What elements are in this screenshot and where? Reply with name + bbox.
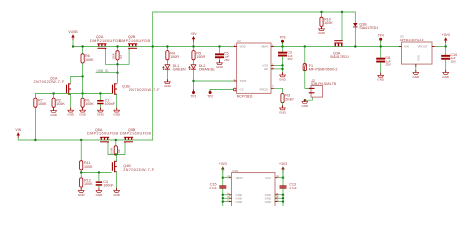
junction R8 top — [115, 139, 117, 141]
wire R8 column — [115, 140, 117, 155]
wire USB GND stub left 3 — [223, 201, 232, 203]
svg-text:+3V3: +3V3 — [279, 162, 287, 166]
wire C10 stub top — [445, 47, 447, 55]
svg-text:GND: GND — [113, 193, 121, 197]
ground under C1 — [97, 108, 105, 117]
svg-text:VDD: VDD — [240, 45, 246, 49]
wire TP3 stub — [282, 42, 284, 46]
junction Q5 gates node — [115, 153, 117, 155]
resistor R12 — [80, 178, 83, 187]
capacitor C4 — [96, 181, 102, 185]
wire VOUT — [432, 46, 446, 48]
svg-text:DMP2160UFDB: DMP2160UFDB — [87, 132, 118, 136]
transistor Q1B — [113, 83, 117, 95]
svg-text:25V: 25V — [451, 59, 456, 63]
wire R7 column — [34, 94, 36, 141]
junction R4 top — [116, 45, 118, 47]
svg-text:150R: 150R — [170, 55, 179, 59]
LED DL1 — [163, 65, 170, 70]
wire PROG — [271, 88, 283, 93]
svg-text:GND: GND — [78, 193, 86, 197]
svg-text:S2B-PH-SM4-TB: S2B-PH-SM4-TB — [311, 82, 337, 86]
wire USB GND stub right 1 — [275, 194, 283, 196]
svg-text:GND: GND — [164, 84, 172, 88]
wire R2 column — [53, 94, 55, 111]
junction gate row x82 — [81, 92, 83, 94]
junction VBAT pin — [222, 177, 224, 179]
svg-text:100K: 100K — [84, 182, 93, 186]
supply arrow VIN — [15, 128, 21, 140]
wire R11/R12 column — [80, 140, 82, 190]
wire Q4B drain — [116, 155, 118, 162]
junction R2 top — [52, 92, 54, 94]
junction R6 bottom node — [81, 75, 83, 77]
transistor Q3A — [334, 41, 342, 47]
svg-text:100K: 100K — [38, 102, 47, 106]
wire C3 bottom to GND — [282, 57, 284, 75]
wire C4 stub bottom — [98, 186, 100, 191]
junction USB GND left 2 — [222, 197, 224, 199]
resistor R6 — [81, 54, 84, 63]
junction R6 top — [81, 45, 83, 47]
junction Q3B rail — [354, 45, 356, 47]
svg-text:VBAT: VBAT — [261, 45, 269, 49]
ground under R10 — [318, 26, 326, 35]
junction Q3A gate top — [341, 11, 343, 13]
wire Q4B source — [116, 172, 118, 191]
diode Q3B (body) — [353, 23, 357, 27]
capacitor C13 — [280, 185, 287, 188]
svg-text:VIN: VIN — [404, 45, 409, 49]
op-amp U2 charger IC box — [237, 43, 271, 93]
svg-text:2K87: 2K87 — [285, 97, 294, 101]
svg-text:+3V3: +3V3 — [219, 162, 227, 166]
wire R6 column — [82, 47, 84, 94]
wire C3 stub top — [282, 47, 284, 52]
svg-text:100K: 100K — [84, 165, 93, 169]
svg-text:GND: GND — [50, 113, 58, 117]
capacitor C8 — [376, 58, 385, 63]
junction USB GND right 2 — [282, 197, 284, 199]
resistor R8 — [114, 146, 117, 155]
LED DL2 — [189, 65, 196, 70]
junction USB GND right 3 — [282, 200, 284, 202]
capacitor C5 — [215, 53, 224, 58]
svg-text:GND: GND — [113, 113, 121, 117]
wire R4a column — [166, 47, 168, 65]
connector USB box — [232, 173, 276, 209]
resistor R10 — [320, 17, 323, 26]
wire Q1A drain link — [71, 76, 83, 82]
junction C5 top — [218, 45, 220, 47]
junction EP — [281, 68, 283, 70]
ground under R2 — [50, 108, 58, 117]
svg-text:STAT: STAT — [240, 79, 247, 83]
pin bubble CS — [233, 88, 236, 91]
svg-text:100nF: 100nF — [105, 102, 116, 106]
wire USB GND stub left 1 — [223, 194, 232, 196]
ground under C8 — [377, 73, 385, 82]
svg-text:GND: GND — [416, 55, 420, 61]
svg-text:GND: GND — [412, 75, 420, 79]
svg-text:GND: GND — [442, 75, 450, 79]
ground under DL1 — [164, 79, 172, 88]
junction TP4 rail — [380, 45, 382, 47]
junction DL1 column — [166, 45, 168, 47]
wire Q5 gates — [108, 143, 125, 155]
svg-text:R4: R4 — [119, 55, 123, 59]
junction C1 top — [99, 92, 101, 94]
svg-text:DMP2160UFDB: DMP2160UFDB — [120, 132, 151, 136]
svg-text:TP1: TP1 — [190, 94, 196, 98]
svg-text:MCP73831: MCP73831 — [237, 94, 253, 98]
capacitor C1 — [97, 100, 103, 104]
wire top +5V feed — [153, 11, 356, 13]
wire Q3B anode — [354, 12, 356, 23]
svg-text:DMP2160UFDB: DMP2160UFDB — [119, 39, 150, 43]
resistor R11 — [80, 161, 83, 170]
svg-text:GND: GND — [265, 200, 271, 204]
svg-text:CS: CS — [240, 87, 244, 91]
ground under R1 — [79, 108, 87, 117]
wire C4 stub top — [98, 173, 100, 182]
resistor R1 — [81, 98, 84, 107]
svg-text:100K: 100K — [56, 102, 65, 106]
pin tips U3 — [399, 47, 435, 67]
wire R5 column — [193, 47, 195, 65]
svg-text:GND: GND — [67, 113, 75, 117]
ground under C5 — [216, 60, 224, 69]
resistor R4 — [116, 51, 119, 60]
svg-text:P$4: P$4 — [227, 176, 230, 178]
svg-text:+5V: +5V — [190, 32, 197, 36]
svg-text:VROUT: VROUT — [417, 45, 427, 49]
svg-text:ORANGE: ORANGE — [199, 68, 216, 72]
capacitor C10 — [441, 55, 450, 60]
junction USB GND left 3 — [222, 200, 224, 202]
junction USB_ID tap — [116, 72, 118, 74]
junction +3V3 node — [445, 45, 447, 47]
junction R11/R12 node — [80, 171, 82, 173]
supply arrow +3V3 right — [279, 162, 287, 178]
svg-text:GND: GND — [236, 200, 242, 204]
ground under R3 — [279, 105, 287, 114]
wire VUSB stub — [72, 40, 74, 46]
fuse F1 — [303, 64, 306, 71]
svg-text:SiA417EDJ: SiA417EDJ — [359, 26, 378, 30]
svg-text:PROG: PROG — [260, 87, 269, 91]
connector J2 — [309, 86, 323, 98]
svg-text:P$1: P$1 — [276, 176, 279, 178]
wire C5 stub bottom — [219, 58, 221, 63]
svg-text:VBAT: VBAT — [236, 176, 244, 180]
supply arrow +3V3 — [442, 33, 450, 47]
ground under C4 — [96, 188, 104, 197]
svg-text:SiA417EDJ: SiA417EDJ — [330, 55, 349, 59]
supply arrow +5V — [190, 32, 197, 47]
wire F1 to J2 pin 1 — [305, 71, 309, 89]
svg-text:5: 5 — [272, 86, 274, 88]
wire left +3V3 column — [222, 167, 224, 185]
svg-text:R8: R8 — [117, 149, 121, 153]
capacitor C15 — [219, 185, 226, 188]
pin VBAT red stub — [229, 177, 232, 179]
ground under Q4B — [113, 188, 121, 197]
pin number marks U2 — [234, 45, 274, 88]
wire VBAT pin stub — [223, 177, 229, 179]
wire C1 stub bottom — [99, 104, 101, 110]
supply arrow VUSB — [68, 30, 78, 41]
svg-text:U2: U2 — [237, 39, 241, 43]
svg-text:150R: 150R — [196, 55, 205, 59]
wire Q1A source — [70, 94, 72, 110]
junction C4 top — [98, 171, 100, 173]
test point TP4 — [378, 34, 384, 42]
wire left column to GND rows — [222, 189, 224, 206]
wire DL1 cathode — [166, 70, 168, 82]
svg-text:4.7uF: 4.7uF — [209, 186, 217, 190]
svg-text:GND: GND — [216, 65, 224, 69]
svg-text:GREEN: GREEN — [173, 68, 186, 72]
svg-text:VCC: VCC — [265, 176, 271, 180]
wire R1 column — [82, 94, 84, 111]
wire TP4 column — [380, 40, 382, 57]
svg-text:TP2: TP2 — [207, 94, 213, 98]
resistor R2 — [52, 98, 55, 107]
transistor Q1A — [67, 83, 71, 95]
transistor Q4B — [112, 161, 116, 172]
svg-text:GND: GND — [96, 193, 104, 197]
junction Q2 gates node — [116, 63, 118, 65]
wire Q1 gate row — [35, 93, 112, 95]
transistor Q2B — [128, 44, 137, 50]
wire R3 bottom — [282, 103, 284, 108]
wire vertical tie x152 — [152, 12, 154, 140]
wire VBAT rail — [271, 46, 402, 48]
junction VCC pin — [282, 177, 284, 179]
pin VCC red stub — [275, 177, 278, 179]
wire Q1B source — [116, 94, 118, 110]
regulator U3 box — [402, 42, 433, 64]
wire VIN rail — [18, 139, 153, 141]
svg-text:25V: 25V — [288, 57, 293, 61]
pin tips USB gnd rows — [229, 195, 278, 202]
svg-text:4.7uF: 4.7uF — [289, 186, 297, 190]
junction R11 top — [80, 139, 82, 141]
svg-text:USB_ID: USB_ID — [97, 69, 110, 73]
svg-text:GND: GND — [279, 77, 287, 81]
svg-text:2N7002DW-7-F: 2N7002DW-7-F — [34, 80, 65, 84]
svg-text:25V: 25V — [224, 58, 229, 62]
svg-text:100K: 100K — [85, 102, 94, 106]
svg-text:USB: USB — [232, 169, 238, 173]
junction USB GND left 1 — [222, 194, 224, 196]
ground under J2 — [301, 99, 309, 108]
svg-text:VUSB: VUSB — [68, 30, 78, 34]
svg-text:2N7002DW-7-F: 2N7002DW-7-F — [129, 88, 160, 92]
transistor Q2A — [97, 44, 106, 50]
capacitor C3 — [278, 52, 287, 57]
svg-text:DMP2160UFDB: DMP2160UFDB — [90, 39, 121, 43]
junction USB GND right 1 — [282, 194, 284, 196]
wire USB_ID — [96, 72, 118, 74]
ground under R12 — [78, 188, 86, 197]
pin tips U2 — [234, 47, 274, 89]
wire C1 stub top — [99, 94, 101, 101]
transistor Q5B — [124, 137, 133, 143]
wire USB GND stub right 3 — [275, 201, 283, 203]
junction +5V column — [192, 45, 194, 47]
wire +5V rail — [73, 46, 237, 48]
svg-text:GND: GND — [79, 113, 87, 117]
svg-text:GND: GND — [301, 104, 309, 108]
wire VCC pin stub — [275, 177, 283, 179]
svg-text:GND: GND — [279, 110, 287, 114]
junction R7 on VIN rail — [34, 139, 36, 141]
resistor R7 — [34, 98, 37, 107]
wire Q3A gate — [341, 12, 343, 40]
junction x152 rail — [152, 45, 154, 47]
wire R10 bottom — [321, 26, 323, 28]
wire EP pin — [271, 68, 283, 70]
junction VUSB-rail — [72, 45, 74, 47]
junction VSS — [281, 64, 283, 66]
ground under Q1A — [67, 108, 75, 117]
wire J2 pin 2 to GND — [305, 97, 313, 102]
resistor R5 — [192, 51, 195, 60]
wire Q2 gates — [105, 50, 129, 65]
resistor R4 (LED green) — [166, 51, 169, 60]
wire right +3V3 column — [282, 167, 284, 185]
wire C8 bottom — [380, 63, 382, 76]
junction VBAT column — [281, 45, 283, 47]
wire USB GND stub right 2 — [275, 197, 283, 199]
svg-text:EP: EP — [264, 67, 268, 71]
wire Q3B cathode — [354, 27, 356, 46]
wire Q4B gate row — [81, 172, 111, 174]
svg-text:2N7002DW-7-F: 2N7002DW-7-F — [123, 168, 154, 172]
wire C5 stub top — [219, 47, 221, 54]
svg-text:25V: 25V — [386, 63, 391, 67]
junction F1 top — [304, 45, 306, 47]
transistor Q5A — [100, 137, 109, 143]
wire to F1 — [304, 47, 306, 64]
wire right column to GND rows — [282, 189, 284, 206]
wire C10 bottom — [445, 60, 447, 73]
test point TP2 — [207, 90, 213, 99]
resistor R3 — [281, 94, 284, 103]
ground under Q1B — [113, 108, 121, 117]
svg-text:TP4: TP4 — [378, 34, 384, 38]
svg-text:GND: GND — [318, 31, 326, 35]
wire USB GND stub left 2 — [223, 197, 232, 199]
svg-text:100K: 100K — [110, 147, 114, 153]
test point TP1 — [190, 90, 196, 99]
wire STAT — [194, 80, 237, 82]
ground under C10 — [442, 70, 450, 79]
ground VSS/EP — [279, 72, 287, 81]
wire CS — [210, 90, 233, 92]
wire U3 GND pin — [415, 64, 417, 72]
svg-text:100K: 100K — [111, 53, 115, 59]
junction STAT node — [192, 80, 194, 82]
svg-text:GND: GND — [97, 113, 105, 117]
junction J2 ground node — [304, 99, 306, 101]
junction R10 top — [320, 11, 322, 13]
svg-text:VIN: VIN — [15, 128, 21, 132]
svg-text:TP3: TP3 — [279, 36, 285, 40]
test point TP3 — [279, 36, 285, 44]
svg-text:100K: 100K — [85, 58, 94, 62]
wire R10 stub — [321, 12, 323, 17]
svg-text:100K: 100K — [324, 21, 333, 25]
wire VSS pin — [271, 64, 283, 66]
svg-text:GND: GND — [377, 78, 385, 82]
ground under U3 — [412, 70, 420, 79]
wire R4 / Q1B drain column — [117, 47, 119, 84]
supply arrow +3V3 left — [219, 162, 227, 178]
svg-text:+3V3: +3V3 — [442, 33, 450, 37]
wire DL2 to TP1 — [193, 70, 195, 92]
svg-text:100nF: 100nF — [103, 183, 114, 187]
svg-text:MF-PSMF050X-2: MF-PSMF050X-2 — [309, 67, 338, 71]
